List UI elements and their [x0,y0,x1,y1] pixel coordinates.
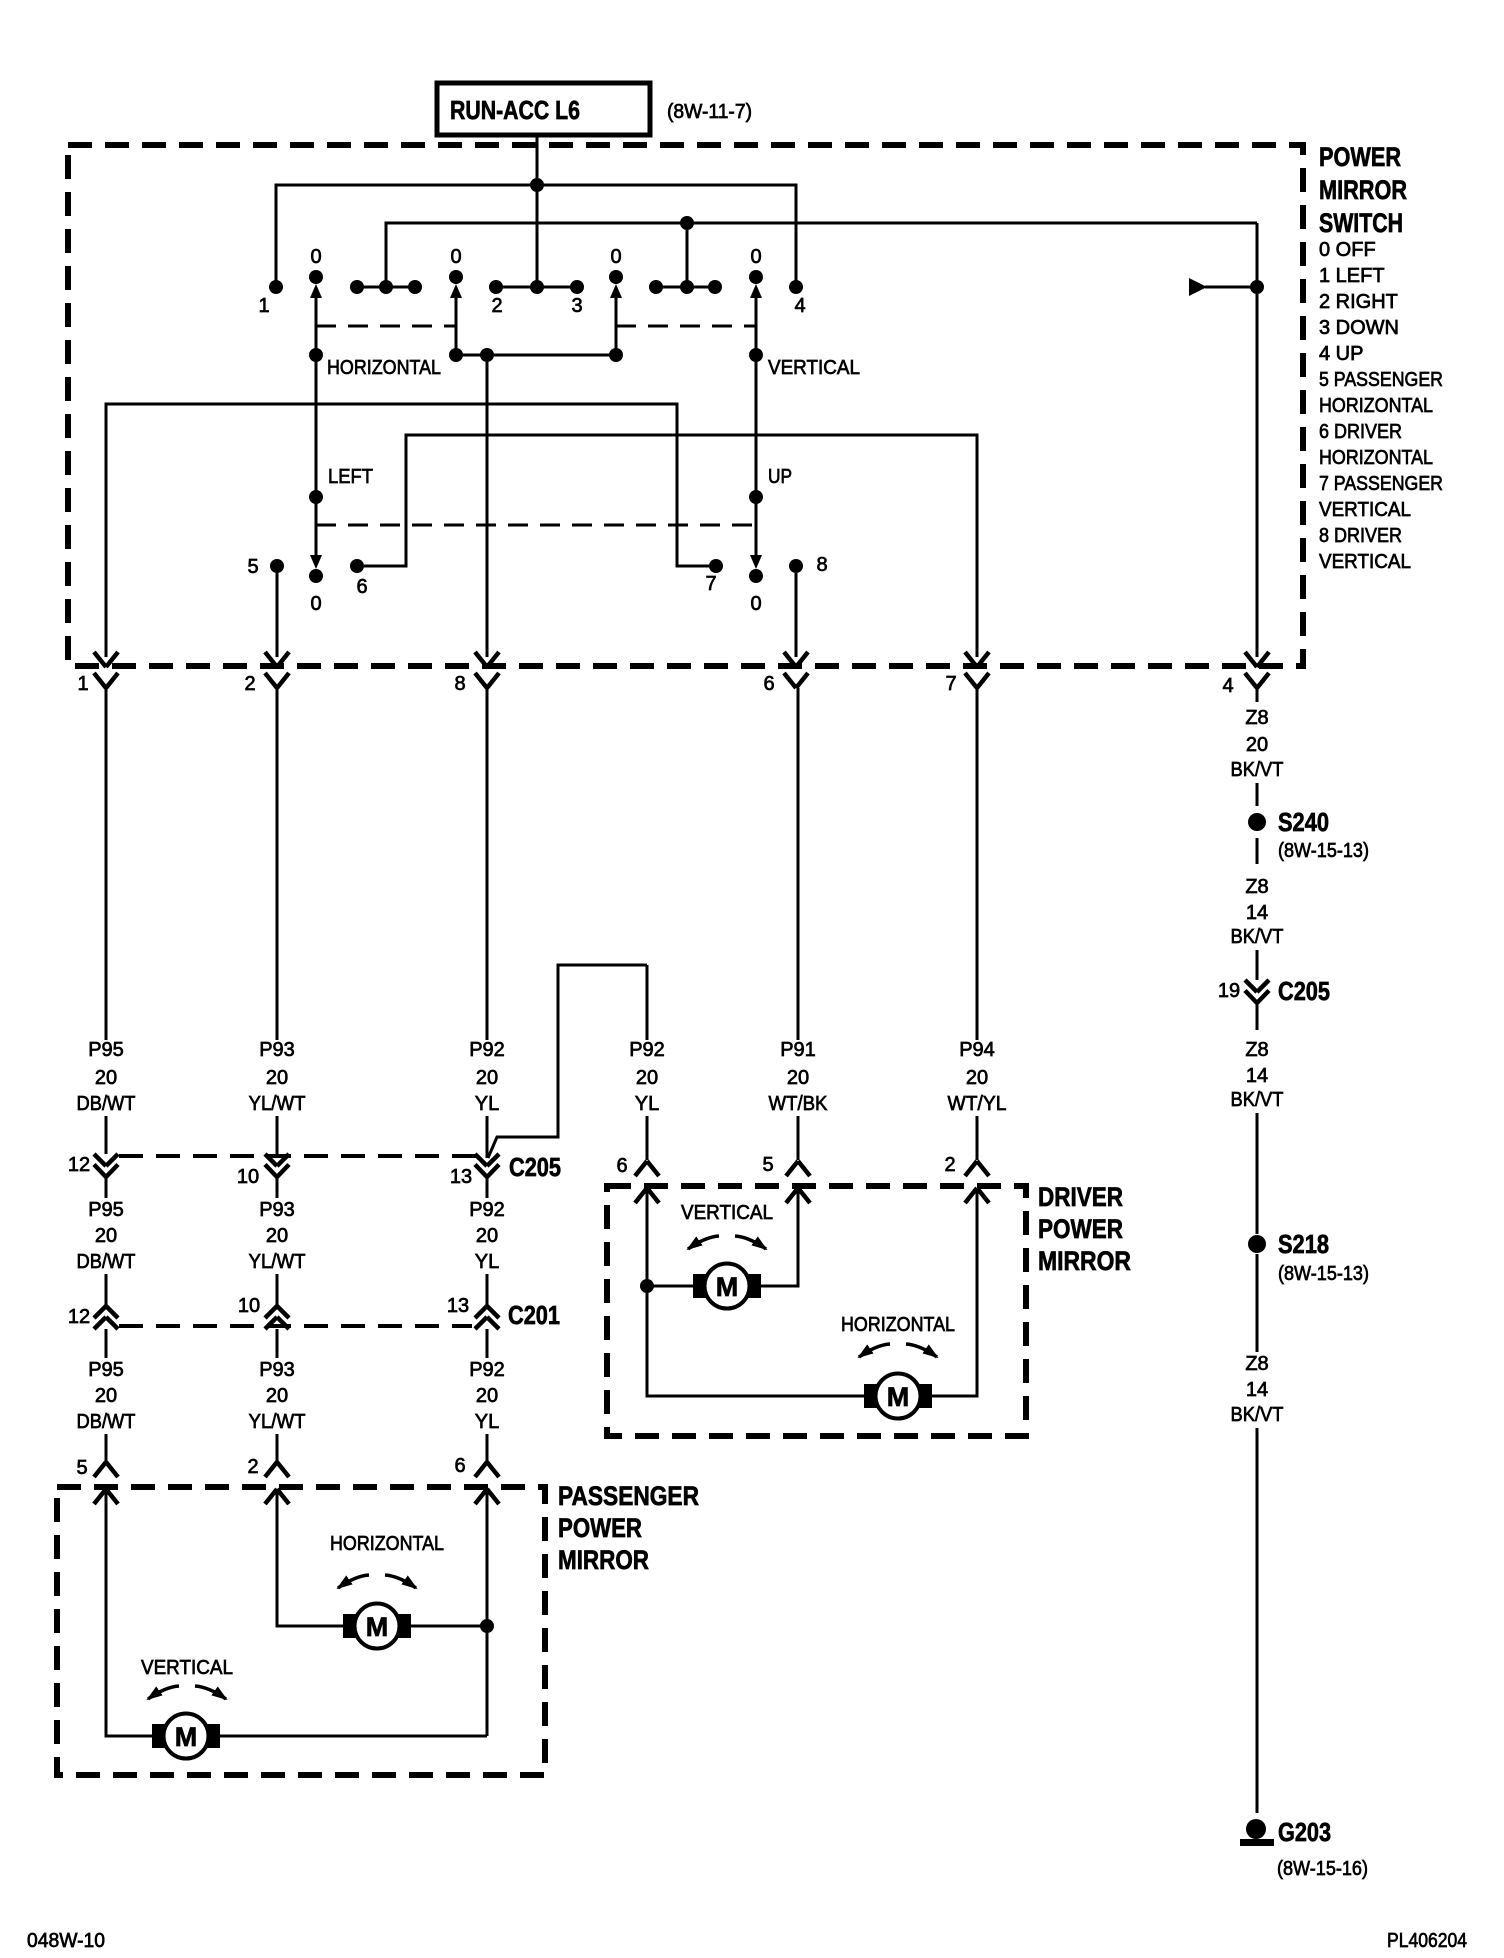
svg-text:6 DRIVER: 6 DRIVER [1319,421,1402,443]
wire passenger pin 6 down [486,1489,489,1736]
wire contact5 to pin 2 [276,573,279,657]
switch position legend [1319,239,1443,573]
contact 0 (pole C) [609,246,623,284]
svg-text:HORIZONTAL: HORIZONTAL [841,1314,955,1336]
svg-text:Z8: Z8 [1245,1039,1268,1061]
svg-text:PL406204: PL406204 [1387,1930,1467,1952]
svg-text:DRIVER: DRIVER [1038,1182,1123,1212]
wire contact8 to pin 6 [795,573,798,657]
switch pin 7 connector [945,652,989,695]
driver pin 6 connector [616,1155,659,1203]
motor M passenger horizontal [343,1604,411,1649]
svg-text:M: M [887,1382,910,1412]
svg-text:P95: P95 [88,1039,124,1061]
svg-text:P92: P92 [469,1039,505,1061]
svg-text:DB/WT: DB/WT [77,1251,136,1273]
connector C205 pin 12 [68,1154,118,1177]
svg-text:5: 5 [247,556,258,578]
svg-text:20: 20 [95,1225,117,1247]
svg-text:7: 7 [705,573,716,595]
svg-text:M: M [175,1722,198,1752]
svg-text:M: M [716,1272,739,1302]
svg-text:YL/WT: YL/WT [249,1411,306,1433]
contact 0 (pole D) [749,246,763,284]
wiper arm D up [750,284,762,355]
connector C201 pin 10 [238,1295,289,1329]
svg-text:Z8: Z8 [1245,1353,1268,1375]
wiper arm B up [450,284,462,355]
rotation arrow passenger horizontal [338,1575,369,1588]
junction passenger pin 6 node [480,1619,494,1633]
svg-text:POWER: POWER [1319,142,1401,172]
svg-text:P91: P91 [780,1039,816,1061]
svg-text:13: 13 [447,1295,469,1317]
svg-text:MIRROR: MIRROR [1038,1246,1131,1276]
svg-text:1 LEFT: 1 LEFT [1319,265,1385,287]
passenger mirror name label [558,1481,699,1575]
svg-text:6: 6 [356,576,367,598]
svg-text:SWITCH: SWITCH [1319,208,1403,238]
contact 0 lower right [749,569,763,615]
wire S218 down [1256,1254,1259,1352]
svg-text:20: 20 [95,1385,117,1407]
svg-text:20: 20 [266,1067,288,1089]
svg-text:0: 0 [310,246,321,268]
wiper arm A up [310,284,322,355]
wire bus2 to pin 4 [1256,223,1259,657]
svg-text:2: 2 [244,673,255,695]
wire P94 switch pin7 to driver pin 2 [976,688,979,1160]
switch pin 1 connector [77,652,118,695]
wire P93 C205 to C201 [276,1177,279,1306]
wiper arm UP down [749,355,792,569]
wire Z8 from switch pin 4 [1256,688,1259,806]
passenger pin 5 connector [76,1457,118,1504]
wire label P95 20 DB/WT lower [77,1359,136,1433]
connector C205 dashed line [119,1154,478,1158]
power mirror switch dashed enclosure [68,145,1303,666]
wire S240 down [1256,838,1259,864]
svg-text:4: 4 [794,295,805,317]
svg-text:YL: YL [635,1093,659,1115]
wire label Z8 14 BK/VT upper [1231,876,1284,948]
mechanical link LEFT-UP [316,524,756,527]
svg-text:VERTICAL: VERTICAL [1319,551,1411,573]
svg-text:0: 0 [750,593,761,615]
svg-text:12: 12 [68,1306,90,1328]
svg-text:P93: P93 [259,1359,295,1381]
wire P91 switch pin6 to driver pin 5 [797,688,800,1160]
driver mirror name label [1038,1182,1131,1276]
motor M passenger vertical [152,1714,220,1759]
svg-text:HORIZONTAL: HORIZONTAL [1319,395,1433,417]
svg-text:14: 14 [1246,1379,1268,1401]
contact 4 [789,280,806,317]
svg-text:20: 20 [966,1067,988,1089]
contact 8 [789,554,828,576]
svg-text:C205: C205 [509,1152,561,1182]
wire vertical motor to driver pin 5 [760,1188,798,1286]
wire P95 C201 to passenger pin 5 [105,1329,108,1462]
contact 0 lower left [309,569,323,615]
rotation arrow driver vertical [688,1236,719,1249]
svg-text:2: 2 [247,1456,258,1478]
ground G203 [1240,1817,1331,1847]
wire to C205 pin 19 [1256,950,1259,980]
svg-text:0: 0 [450,246,461,268]
mechanical link C-D [616,325,756,328]
svg-text:YL/WT: YL/WT [249,1251,306,1273]
wire label P92 20 YL lower [469,1359,505,1433]
svg-text:Z8: Z8 [1245,876,1268,898]
svg-text:VERTICAL: VERTICAL [681,1202,773,1224]
switch pin 8 connector [454,652,499,695]
svg-text:0: 0 [610,246,621,268]
svg-text:HORIZONTAL: HORIZONTAL [1319,447,1433,469]
wiper arm right at pin 4 riser [1189,278,1264,296]
wire ground run to G203 [1256,1428,1259,1813]
wire P92 branch down to driver pin 6 [646,965,649,1160]
contact 1 [258,280,283,317]
svg-text:2: 2 [491,295,502,317]
svg-text:YL: YL [475,1411,499,1433]
wire label P91 20 WT/BK [769,1039,829,1115]
wire stub bus2 to contact group [686,223,689,287]
svg-text:HORIZONTAL: HORIZONTAL [330,1533,444,1555]
svg-text:DB/WT: DB/WT [77,1411,136,1433]
switch pin 6 connector [763,652,808,695]
wire P93 C201 to passenger pin 2 [276,1329,279,1462]
wire P93 switch pin2 to C205 [276,688,279,1154]
svg-text:PASSENGER: PASSENGER [558,1481,699,1511]
svg-text:6: 6 [763,673,774,695]
svg-text:8: 8 [454,673,465,695]
wire P92 C205 to C201 [486,1177,489,1306]
svg-text:UP: UP [768,466,792,488]
svg-text:8 DRIVER: 8 DRIVER [1319,525,1402,547]
svg-text:C205: C205 [1278,976,1330,1006]
passenger pin 6 connector [454,1455,499,1504]
svg-text:YL: YL [475,1251,499,1273]
svg-text:4: 4 [1222,675,1233,697]
wire P95 C205 to C201 [105,1177,108,1306]
svg-text:20: 20 [266,1225,288,1247]
connector C205 pin 19 [1218,976,1330,1006]
svg-text:2: 2 [944,1154,955,1176]
wire label P95 20 DB/WT middle [77,1199,136,1273]
wiper arm C up [610,284,622,355]
svg-text:0: 0 [750,246,761,268]
junction on bus line 2 [680,216,694,230]
pivot junction VERTICAL [749,348,860,379]
svg-text:8: 8 [816,554,827,576]
svg-text:20: 20 [476,1385,498,1407]
junction node at feed split [530,178,544,192]
passenger power mirror dashed enclosure [57,1487,545,1775]
svg-text:14: 14 [1246,902,1268,924]
svg-text:P92: P92 [629,1039,665,1061]
wire contact7 to pin 1 [106,404,709,657]
pivot junction C [609,348,623,362]
junction driver vertical motor feed [640,1279,654,1293]
wire pole pivot to pin 8 [486,362,489,657]
svg-text:20: 20 [1246,734,1268,756]
switch name label POWER MIRROR SWITCH [1319,142,1407,238]
svg-text:G203: G203 [1278,1817,1331,1847]
wire passenger pin 5 to vertical motor [106,1489,153,1736]
svg-text:VERTICAL: VERTICAL [1319,499,1411,521]
connector C205 pin 10 [237,1154,289,1188]
svg-text:POWER: POWER [558,1513,642,1543]
wire label P92 20 YL upper [469,1039,505,1115]
wire below C205 pin 19 [1256,1003,1259,1030]
wire vertical motor to pin6 riser [219,1735,487,1738]
svg-text:WT/BK: WT/BK [769,1093,829,1115]
svg-text:(8W-15-13): (8W-15-13) [1278,1263,1369,1285]
wire label P95 20 DB/WT upper [77,1039,136,1115]
wire label P92 20 YL middle [469,1199,505,1273]
svg-text:LEFT: LEFT [328,466,373,488]
wire label P94 20 WT/YL [948,1039,1007,1115]
svg-text:P95: P95 [88,1199,124,1221]
svg-text:DB/WT: DB/WT [77,1093,136,1115]
wire label P93 20 YL/WT middle [249,1199,306,1273]
svg-text:M: M [366,1612,389,1642]
driver pin 2 connector [944,1154,989,1203]
svg-text:1: 1 [77,673,88,695]
wire P92 C201 to passenger pin 6 [486,1329,489,1462]
svg-text:RUN-ACC L6: RUN-ACC L6 [450,95,580,125]
wire label P93 20 YL/WT upper [249,1039,306,1115]
svg-text:P93: P93 [259,1039,295,1061]
wire bus line 2 [386,223,1257,287]
svg-text:YL: YL [475,1093,499,1115]
splice S218 [1248,1229,1329,1259]
pivot junction HORIZONTAL [309,348,441,379]
wire down to S218 [1256,1113,1259,1234]
wire passenger pin 2 to horizontal motor [277,1489,344,1626]
wire feed from RUN-ACC L6 into switch [536,135,539,287]
svg-text:19: 19 [1218,980,1240,1002]
wire contact6 to pin 7 [364,435,977,657]
svg-text:MIRROR: MIRROR [558,1545,649,1575]
svg-text:20: 20 [636,1067,658,1089]
svg-text:4 UP: 4 UP [1319,343,1363,365]
svg-text:5 PASSENGER: 5 PASSENGER [1319,369,1443,391]
contact group C triple [649,280,722,294]
svg-text:YL/WT: YL/WT [249,1093,306,1115]
contact 5 [247,556,284,578]
switch pin 2 connector [244,652,289,695]
wire P92 switch pin8 to C205 [486,688,489,1158]
splice S240 [1248,807,1329,837]
wire label P92 20 YL driver branch [629,1039,665,1115]
contact 0 (pole A) [309,246,323,284]
svg-text:2 RIGHT: 2 RIGHT [1319,291,1398,313]
contact 0 (pole B) [449,246,463,284]
svg-text:BK/VT: BK/VT [1231,759,1284,781]
svg-text:P95: P95 [88,1359,124,1381]
wire label Z8 20 BK/VT [1231,707,1284,781]
svg-text:(8W-11-7): (8W-11-7) [667,101,752,123]
svg-text:20: 20 [476,1225,498,1247]
mechanical link A-B [316,325,456,328]
svg-text:048W-10: 048W-10 [27,1930,105,1952]
motor M driver vertical [693,1264,761,1309]
svg-text:P92: P92 [469,1199,505,1221]
wire P95 switch pin1 to C205 [105,688,108,1154]
svg-text:BK/VT: BK/VT [1231,1089,1284,1111]
svg-text:6: 6 [454,1455,465,1477]
svg-text:10: 10 [238,1295,260,1317]
svg-text:13: 13 [450,1166,472,1188]
wiper arm LEFT down [309,355,373,569]
connector C201 dashed line [119,1324,472,1328]
svg-text:12: 12 [68,1154,90,1176]
svg-text:BK/VT: BK/VT [1231,1404,1284,1426]
svg-text:P92: P92 [469,1359,505,1381]
svg-text:P93: P93 [259,1199,295,1221]
svg-text:10: 10 [237,1166,259,1188]
wire horizontal motor to driver pin 2 [931,1188,977,1396]
wire label Z8 14 BK/VT middle [1231,1039,1284,1111]
svg-text:20: 20 [266,1385,288,1407]
svg-text:0 OFF: 0 OFF [1319,239,1376,261]
svg-text:Z8: Z8 [1245,707,1268,729]
svg-text:S240: S240 [1278,807,1329,837]
pivot bar B-C [456,354,616,357]
svg-text:3 DOWN: 3 DOWN [1319,317,1399,339]
svg-text:C201: C201 [508,1300,560,1330]
contact 2 and 3 group [489,280,584,317]
contact 6 [350,559,368,598]
svg-text:VERTICAL: VERTICAL [141,1657,233,1679]
rotation arrow passenger vertical [148,1686,179,1699]
driver power mirror dashed enclosure [607,1186,1026,1436]
svg-text:0: 0 [310,593,321,615]
svg-text:HORIZONTAL: HORIZONTAL [327,357,441,379]
switch pin 4 connector [1222,652,1269,697]
connector C201 pin 12 [68,1306,118,1329]
svg-text:3: 3 [571,295,582,317]
svg-text:14: 14 [1246,1065,1268,1087]
pivot junction B [449,348,463,362]
wire bus line 1 [276,185,796,287]
connector C205 pin 13 [450,1154,499,1188]
svg-text:BK/VT: BK/VT [1231,926,1284,948]
fuse feed box RUN-ACC L6 [437,83,650,135]
contact 7 [705,559,723,595]
wire label P93 20 YL/WT lower [249,1359,306,1433]
svg-text:VERTICAL: VERTICAL [768,357,860,379]
pivot junction to pin 8 [480,348,494,362]
svg-text:(8W-15-13): (8W-15-13) [1278,840,1369,862]
svg-text:7: 7 [945,673,956,695]
svg-text:5: 5 [762,1154,773,1176]
svg-text:5: 5 [76,1457,87,1479]
wire driver pin 6 branch [647,1188,866,1396]
svg-text:S218: S218 [1278,1229,1329,1259]
svg-text:6: 6 [616,1155,627,1177]
svg-text:20: 20 [787,1067,809,1089]
passenger pin 2 connector [247,1456,289,1504]
rotation arrow driver horizontal [859,1344,890,1357]
contact group A triple [350,280,422,294]
svg-text:20: 20 [476,1067,498,1089]
driver pin 5 connector [762,1154,810,1203]
wire branch P92 jog to driver mirror column [488,965,647,1158]
svg-text:MIRROR: MIRROR [1319,175,1407,205]
svg-text:1: 1 [258,295,269,317]
wire horizontal motor to passenger pin 6 junction [410,1625,487,1628]
svg-text:P94: P94 [959,1039,995,1061]
svg-text:(8W-15-16): (8W-15-16) [1277,1858,1368,1880]
wire label Z8 14 BK/VT lower [1231,1353,1284,1426]
connector C201 pin 13 [447,1295,499,1329]
svg-text:WT/YL: WT/YL [948,1093,1007,1115]
svg-text:7 PASSENGER: 7 PASSENGER [1319,473,1443,495]
wire junction to vertical motor [647,1285,694,1288]
svg-text:20: 20 [95,1067,117,1089]
motor M driver horizontal [864,1374,932,1419]
svg-text:POWER: POWER [1038,1214,1123,1244]
